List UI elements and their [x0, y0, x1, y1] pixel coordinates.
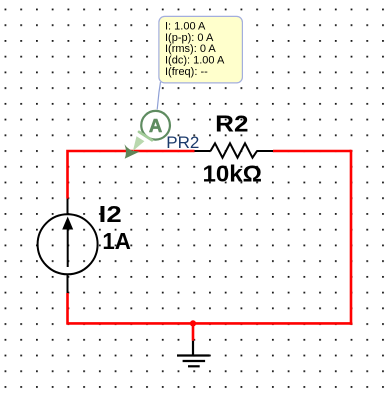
svg-text:I: 1.00 A: I: 1.00 A [165, 20, 206, 32]
wire right segment [350, 150, 353, 325]
wire bottom segment [68, 322, 353, 325]
probe PR2 indicator circle [141, 111, 170, 140]
svg-text:R2: R2 [215, 111, 248, 137]
svg-text:I(dc): 1.00 A: I(dc): 1.00 A [165, 55, 225, 67]
svg-text:I(p-p): 0 A: I(p-p): 0 A [165, 32, 214, 44]
svg-text:A: A [149, 115, 162, 136]
svg-text:1A: 1A [102, 228, 130, 254]
junction node [190, 320, 196, 326]
resistor R2 [195, 143, 274, 157]
annotation callout leader [157, 82, 160, 110]
svg-text:10kΩ: 10kΩ [203, 161, 263, 187]
svg-text:I(rms): 0 A: I(rms): 0 A [165, 43, 216, 55]
svg-text:I(freq): --: I(freq): -- [165, 66, 208, 78]
wire top segment left (source top to resistor) [68, 151, 195, 199]
wire top segment right (resistor to right corner) [273, 150, 351, 153]
wire ground stub [192, 323, 195, 340]
svg-text:I2: I2 [99, 201, 122, 227]
probe PR2 arrow [125, 132, 153, 159]
annotation box PR2 readings [159, 16, 243, 83]
current source I2 [38, 199, 98, 293]
svg-text:PR2: PR2 [166, 133, 199, 152]
wire left segment (bottom corner to source bottom) [66, 293, 69, 325]
ground [177, 341, 210, 367]
